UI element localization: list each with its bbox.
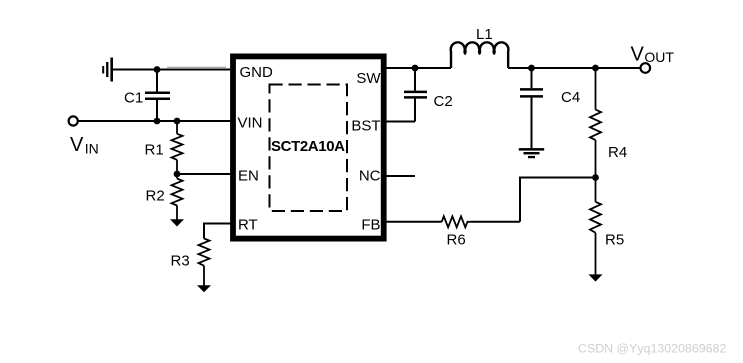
svg-text:R5: R5 [605,231,624,248]
node R1-VIN junction [174,118,181,125]
IC U1 body SCT2A10A [233,56,384,238]
resistor R5 [590,178,601,275]
capacitor C1 [145,70,170,122]
wire NC stub [385,175,415,177]
wire EN net [177,173,231,175]
node R4 junction [592,65,599,72]
terminal VOUT [641,63,651,73]
resistor R4 [590,68,601,178]
svg-text:FB: FB [361,217,380,234]
node C4 junction [528,65,535,72]
svg-text:R4: R4 [608,144,627,161]
svg-text:SCT2A10A: SCT2A10A [271,138,345,155]
svg-text:BST: BST [351,118,380,135]
resistor R2 [172,174,183,220]
capacitor C4 [520,68,543,148]
svg-text:R2: R2 [146,188,165,205]
svg-text:C1: C1 [124,89,143,106]
ground symbol (C4) [519,148,544,158]
svg-text:V: V [631,43,645,65]
resistor R1 [172,121,183,174]
wire FB node [520,178,596,222]
IC U1 inner dashed outline [270,85,348,212]
svg-text:L1: L1 [476,26,493,43]
ground arrow (R5) [589,274,603,281]
svg-text:R1: R1 [145,142,164,159]
svg-text:CSDN @Yyq13020869682: CSDN @Yyq13020869682 [578,342,726,356]
svg-text:RT: RT [238,217,258,234]
terminal VIN [69,116,78,125]
wire VOUT net [508,67,641,69]
node C1-VIN junction [154,118,161,125]
ground arrow (R3) [197,285,211,292]
svg-text:IN: IN [85,141,99,157]
svg-text:R3: R3 [171,253,190,270]
svg-text:GND: GND [240,64,274,81]
node C1-GND junction [154,66,161,73]
svg-text:R6: R6 [447,231,466,248]
wire GND net (ground to pin GND) [167,66,226,68]
resistor R3 [199,239,210,286]
wire VIN net [78,120,231,122]
svg-text:SW: SW [356,70,381,87]
wire RT net [204,224,231,239]
node C2-SW junction [412,65,419,72]
svg-text:C4: C4 [561,89,580,106]
inductor L1 [451,42,509,68]
svg-text:C2: C2 [434,93,453,110]
resistor R6 [442,216,471,227]
ground arrow (R2) [170,219,184,226]
wire FB pin to R6 [385,221,442,223]
svg-text:V: V [70,134,84,156]
wire SW net [385,67,451,69]
svg-text:EN: EN [238,168,259,185]
wire BST net [385,121,415,123]
svg-text:VIN: VIN [238,115,263,132]
svg-text:NC: NC [359,168,381,185]
svg-text:OUT: OUT [644,49,674,65]
node R1-R2-EN junction [174,171,181,178]
label VIN [70,134,99,157]
label VOUT [631,43,675,65]
capacitor C2 [404,68,427,122]
ground symbol (rotated, top-left) [102,58,113,82]
wire R6 to FB node [470,221,520,223]
node R4-R5-FB junction [592,174,599,181]
